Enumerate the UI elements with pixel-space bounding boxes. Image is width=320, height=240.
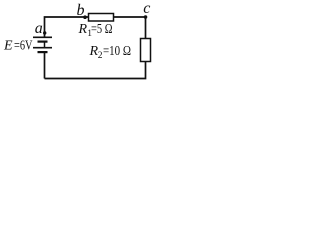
svg-text:a: a	[35, 20, 43, 37]
svg-text:c: c	[143, 0, 150, 17]
battery E: cell 2 short thick plate	[38, 51, 48, 53]
svg-text:b: b	[77, 2, 85, 19]
svg-text:=6V: =6V	[14, 38, 33, 53]
svg-text:R: R	[78, 22, 88, 37]
wire: R1 right terminal to node c	[114, 16, 146, 18]
battery E: cell 1 long plate	[33, 36, 52, 38]
resistor R2 (box)	[141, 39, 151, 62]
wire: node c down to R2 top terminal	[145, 17, 147, 39]
battery E: cell 2 long plate	[33, 47, 52, 49]
svg-text:E: E	[3, 39, 13, 54]
node c	[144, 15, 148, 19]
wire: battery top lead up through node a to top-left corner then right to R1 left terminal	[45, 17, 89, 37]
wire: R2 bottom terminal down to bottom-right corner then left along bottom to bottom-left corner	[45, 62, 146, 79]
svg-text:=5 Ω: =5 Ω	[91, 21, 113, 36]
svg-text:=10 Ω: =10 Ω	[103, 43, 131, 58]
wire: bottom-left corner up to battery bottom lead	[44, 53, 46, 79]
resistor R1 (box)	[89, 14, 114, 22]
node b	[83, 15, 87, 19]
node a	[43, 31, 46, 34]
battery E: connector stub between cells	[44, 43, 46, 48]
battery E: cell 1 short thick plate	[38, 41, 48, 43]
